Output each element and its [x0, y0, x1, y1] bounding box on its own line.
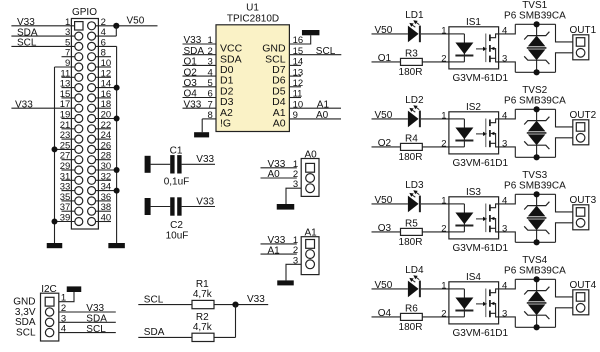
- net label A0 (U1 pin 9): [316, 110, 329, 121]
- svg-text:O2: O2: [378, 138, 392, 149]
- svg-text:SDA: SDA: [144, 327, 165, 338]
- ground bar (C1): [145, 156, 151, 173]
- top output rail (channel 4): [515, 278, 555, 280]
- resistor R1 4,7k: [192, 279, 214, 309]
- svg-text:G3VM-61D1: G3VM-61D1: [453, 243, 509, 254]
- net label O1 (U1 pin 3): [184, 57, 198, 68]
- top output rail (channel 1): [515, 23, 555, 25]
- svg-text:10: 10: [293, 99, 304, 110]
- wire bottom rail to OUT3 pin 2: [556, 223, 573, 243]
- wire A0 pin 3 to ground: [286, 188, 301, 204]
- top output rail (channel 3): [515, 193, 555, 195]
- svg-text:A0: A0: [316, 110, 329, 121]
- svg-text:R4: R4: [405, 133, 418, 144]
- net label SCL (U1 pin 15): [316, 46, 336, 57]
- svg-text:V50: V50: [375, 280, 393, 291]
- TVS diode TVS4 label: [504, 255, 566, 276]
- IS1 pin numbers: [441, 25, 507, 64]
- wire SCL to GPIO pin 5: [11, 45, 74, 47]
- junction dot GPIO pin 39: [52, 219, 58, 225]
- TVS diode TVS1: [524, 24, 549, 72]
- svg-text:2: 2: [441, 223, 446, 234]
- svg-text:C1: C1: [170, 145, 183, 156]
- wire I2C pin 3 SDA: [59, 321, 116, 323]
- net label V33 (GPIO pin 17): [15, 99, 33, 110]
- U1 value TPIC2810D: [227, 14, 279, 25]
- svg-text:1: 1: [441, 25, 446, 36]
- wire A1 pin 3 to ground: [286, 264, 301, 280]
- wire V33 to U1 pin 1: [183, 43, 217, 45]
- wire V33 to A1 pin 1: [261, 243, 297, 245]
- LED LD1: [405, 10, 424, 42]
- connector OUT2: [570, 110, 597, 145]
- svg-text:3: 3: [502, 53, 507, 64]
- junction dot TVS4 top: [534, 276, 540, 282]
- wire I2C pin 1 to ground bar: [59, 292, 74, 302]
- net label SCL (GPIO pin 5): [17, 38, 37, 49]
- net label SCL (R1): [144, 295, 164, 306]
- net label SDA (U1 pin 2): [184, 46, 205, 57]
- svg-text:1: 1: [441, 195, 446, 206]
- svg-text:V50: V50: [375, 25, 393, 36]
- bottom output rail (channel 4): [515, 326, 555, 328]
- junction dot GPIO pin 20: [114, 116, 120, 122]
- svg-text:P6 SMB39CA: P6 SMB39CA: [504, 265, 566, 276]
- svg-text:!G: !G: [220, 118, 231, 130]
- svg-text:2: 2: [441, 53, 446, 64]
- net label O2: [378, 138, 392, 149]
- svg-text:180R: 180R: [399, 152, 423, 163]
- svg-text:SDA: SDA: [184, 46, 205, 57]
- wire U1 pin 10 A1: [289, 107, 341, 109]
- net label SDA (I2C pin 3): [86, 314, 107, 325]
- svg-text:V33: V33: [196, 154, 214, 165]
- svg-text:1: 1: [441, 110, 446, 121]
- wire I2C pin 2 V33: [59, 311, 116, 313]
- svg-text:O2: O2: [184, 67, 198, 78]
- svg-text:V33: V33: [184, 35, 202, 46]
- junction dot TVS3 bottom: [534, 239, 540, 245]
- wire V33 to GPIO pin 17: [11, 107, 74, 109]
- wire SDA to U1 pin 2: [183, 54, 217, 56]
- svg-text:10uF: 10uF: [166, 231, 189, 242]
- svg-text:3: 3: [502, 223, 507, 234]
- svg-text:A1: A1: [317, 99, 330, 110]
- resistor R3 180R: [399, 48, 423, 78]
- svg-text:13: 13: [293, 67, 304, 78]
- net label A0 (A0 pin 2): [268, 169, 281, 180]
- IS2 pin numbers: [441, 110, 507, 149]
- net label V50: [127, 16, 145, 27]
- net label O3 (U1 pin 5): [184, 78, 198, 89]
- wire O3 to R5: [372, 231, 401, 233]
- LED LD4: [405, 265, 424, 297]
- I2C pin numbers: [61, 293, 66, 335]
- junction dot TVS1 top: [534, 21, 540, 27]
- net label V33 (GPIO pin 1): [17, 17, 35, 28]
- wire A0 net to A0 pin 2: [261, 177, 297, 179]
- net label SDA (R2): [144, 327, 165, 338]
- wire V50 to LED LD3: [372, 203, 408, 205]
- wire V33 to GPIO pin 1: [11, 25, 74, 27]
- svg-text:4: 4: [502, 280, 507, 291]
- wire SCL to R1: [138, 304, 192, 306]
- svg-text:O3: O3: [378, 223, 392, 234]
- connector OUT1: [570, 25, 597, 60]
- IS1 internal LED: [449, 34, 474, 62]
- wire LD3 to IS3 pin 1: [421, 203, 449, 205]
- wire top rail to OUT4 pin 1: [556, 279, 573, 297]
- IS4 light arrow: [476, 302, 487, 306]
- wire ground to C2: [151, 206, 171, 208]
- ground bar (I2C pin 1): [67, 286, 82, 292]
- svg-text:GPIO: GPIO: [72, 7, 97, 18]
- opto relay IS2 G3VM-61D1: [449, 102, 509, 169]
- resistor R2 4,7k: [192, 312, 214, 342]
- svg-text:G3VM-61D1: G3VM-61D1: [453, 73, 509, 84]
- TVS diode TVS4: [524, 279, 549, 327]
- wire C2 to V33: [182, 206, 215, 208]
- junction dot TVS2 bottom: [534, 154, 540, 160]
- svg-text:R5: R5: [405, 218, 418, 229]
- wire R5 to IS3 pin 2: [422, 231, 449, 233]
- wire R1 to V33 junction: [214, 304, 268, 306]
- junction dot TVS3 top: [534, 191, 540, 197]
- wire R3 to IS1 pin 2: [422, 61, 449, 63]
- ground bar (C2): [145, 198, 151, 215]
- opto relay IS4 G3VM-61D1: [449, 272, 509, 339]
- net label V50 (channel 3): [375, 195, 393, 206]
- wire V50 to LED LD2: [372, 118, 408, 120]
- svg-text:2: 2: [441, 138, 446, 149]
- net label A1 (A1 pin 2): [268, 245, 281, 256]
- connector OUT4: [570, 280, 597, 315]
- wire SDA to R2: [138, 336, 192, 338]
- svg-text:0,1uF: 0,1uF: [164, 176, 190, 187]
- wire V50 to LED LD1: [372, 33, 408, 35]
- junction dot TVS1 bottom: [534, 69, 540, 75]
- LED LD3: [405, 180, 424, 212]
- IS3 photo-MOSFET: [486, 204, 499, 233]
- svg-text:4: 4: [502, 25, 507, 36]
- TVS diode TVS2 label: [504, 85, 566, 106]
- wire O2 to R4: [372, 146, 401, 148]
- svg-text:V50: V50: [375, 195, 393, 206]
- wire O4 to U1 pin 6: [183, 97, 217, 99]
- wire O4 to R6: [372, 316, 401, 318]
- svg-text:O4: O4: [378, 308, 392, 319]
- svg-text:LD2: LD2: [405, 95, 424, 106]
- wire IS4 pin 4 to top rail: [499, 279, 516, 289]
- GPIO pin lead stubs: [62, 57, 112, 222]
- svg-text:V33: V33: [15, 99, 33, 110]
- svg-text:O1: O1: [184, 57, 198, 68]
- junction dot TVS2 top: [534, 106, 540, 112]
- IS2 internal LED: [449, 119, 474, 147]
- U1 pin names (inside): [220, 43, 286, 130]
- IS1 light arrow: [476, 47, 487, 51]
- IS4 internal LED: [449, 289, 474, 317]
- wire IS3 pin 3 to bottom rail: [499, 232, 516, 242]
- wire GPIO pin 2 to V50 net: [96, 25, 158, 27]
- TVS diode TVS2: [524, 109, 549, 157]
- wire C1 to V33: [182, 163, 215, 165]
- wire IS3 pin 4 to top rail: [499, 194, 516, 204]
- net label V50 (channel 4): [375, 280, 393, 291]
- svg-text:LD1: LD1: [405, 10, 424, 21]
- svg-text:SCL: SCL: [86, 324, 106, 335]
- svg-text:180R: 180R: [399, 237, 423, 248]
- svg-text:G3VM-61D1: G3VM-61D1: [453, 158, 509, 169]
- capacitor C1 0.1uF: [164, 145, 190, 187]
- svg-text:O4: O4: [184, 89, 198, 100]
- ground bar (GPIO left bus): [47, 243, 63, 248]
- ground bar (A0): [277, 204, 295, 210]
- wire V50 to LED LD4: [372, 288, 408, 290]
- net label O4: [378, 308, 392, 319]
- junction dot GPIO pin 25: [52, 146, 58, 152]
- resistor R5 180R: [399, 218, 423, 248]
- IS4 pin numbers: [441, 280, 507, 319]
- wire top rail to OUT1 pin 1: [556, 24, 573, 42]
- wire V33 to U1 pin 7: [183, 107, 217, 109]
- GPIO pin numbers: [60, 17, 111, 224]
- opto relay IS1 G3VM-61D1: [449, 17, 509, 84]
- svg-text:R3: R3: [405, 48, 418, 59]
- wire top rail to OUT2 pin 1: [556, 109, 573, 127]
- wire bottom rail to OUT2 pin 2: [556, 138, 573, 158]
- junction dot TVS4 bottom: [534, 324, 540, 330]
- junction dot V50: [113, 23, 119, 29]
- wire IS2 pin 3 to bottom rail: [499, 147, 516, 157]
- IS3 pin numbers: [441, 195, 507, 234]
- wire junction down to R2: [235, 305, 237, 338]
- net label O3: [378, 223, 392, 234]
- junction dot R1/R2 V33: [232, 302, 238, 308]
- svg-text:SCL: SCL: [316, 46, 336, 57]
- net label O4 (U1 pin 6): [184, 89, 198, 100]
- ground bar (U1 pin 16): [302, 30, 320, 35]
- svg-text:4,7k: 4,7k: [193, 322, 213, 333]
- net label O2 (U1 pin 4): [184, 67, 198, 78]
- net label O1: [378, 53, 392, 64]
- svg-text:4: 4: [502, 195, 507, 206]
- wire O1 to U1 pin 3: [183, 64, 217, 66]
- connector A0: [293, 150, 319, 197]
- wire O2 to U1 pin 4: [183, 75, 217, 77]
- junction dot GPIO pin 14: [114, 85, 120, 91]
- wire IS2 pin 4 to top rail: [499, 109, 516, 119]
- connector OUT3: [570, 195, 597, 230]
- svg-text:180R: 180R: [399, 322, 423, 333]
- wire bottom rail to OUT4 pin 2: [556, 308, 573, 328]
- wire LD1 to IS1 pin 1: [421, 33, 449, 35]
- IS1 photo-MOSFET: [486, 34, 499, 63]
- wire R2 to junction: [214, 336, 236, 338]
- svg-text:V33: V33: [184, 99, 202, 110]
- junction dot GPIO pin 30: [114, 167, 120, 173]
- svg-text:4: 4: [502, 110, 507, 121]
- net label A1 (U1 pin 10): [317, 99, 330, 110]
- svg-text:1: 1: [441, 280, 446, 291]
- svg-text:O3: O3: [184, 78, 198, 89]
- IS3 light arrow: [476, 217, 487, 221]
- U1 pin numbers: [208, 35, 304, 121]
- svg-text:4,7k: 4,7k: [193, 289, 213, 300]
- connector GPIO (2x20 pin header): [71, 7, 98, 229]
- net label V33 (U1 pin 1): [184, 35, 202, 46]
- svg-text:V33: V33: [196, 196, 214, 207]
- LED LD2: [405, 95, 424, 127]
- wire R4 to IS2 pin 2: [422, 146, 449, 148]
- net label V50 (channel 2): [375, 110, 393, 121]
- net label SCL (I2C pin 4): [86, 324, 106, 335]
- wire IS1 pin 3 to bottom rail: [499, 62, 516, 72]
- svg-text:3: 3: [502, 308, 507, 319]
- wire I2C pin 4 SCL: [59, 332, 116, 334]
- top output rail (channel 2): [515, 108, 555, 110]
- op-amp U1 designator: [246, 2, 259, 13]
- ground bar (A1): [277, 280, 294, 285]
- IS2 photo-MOSFET: [486, 119, 499, 148]
- ground bar (GPIO right bus): [108, 243, 125, 248]
- net label V33 (C2): [196, 196, 214, 207]
- svg-text:LD4: LD4: [405, 265, 424, 276]
- svg-text:C2: C2: [170, 220, 183, 231]
- wire SDA to GPIO pin 3: [11, 35, 74, 37]
- svg-text:LD3: LD3: [405, 180, 424, 191]
- svg-text:G3VM-61D1: G3VM-61D1: [453, 328, 509, 339]
- opto relay IS3 G3VM-61D1: [449, 187, 509, 254]
- wire V33 to A0 pin 1: [261, 167, 297, 169]
- wire LD4 to IS4 pin 1: [421, 288, 449, 290]
- IS2 light arrow: [476, 132, 487, 136]
- IS4 photo-MOSFET: [486, 289, 499, 318]
- svg-text:A0: A0: [268, 169, 281, 180]
- svg-text:SCL: SCL: [16, 327, 36, 338]
- wire U1 pin 8 to ground: [202, 119, 216, 132]
- IS3 internal LED: [449, 204, 474, 232]
- svg-text:SCL: SCL: [144, 295, 164, 306]
- svg-text:4: 4: [208, 67, 213, 78]
- wire R6 to IS4 pin 2: [422, 316, 449, 318]
- TVS diode TVS3 label: [504, 170, 566, 191]
- svg-text:V33: V33: [247, 294, 265, 305]
- net label V50 (channel 1): [375, 25, 393, 36]
- bottom output rail (channel 1): [515, 71, 555, 73]
- resistor R6 180R: [399, 303, 423, 333]
- wire ground to C1: [151, 163, 171, 165]
- connector I2C: [41, 284, 59, 341]
- capacitor C2 10uF: [166, 197, 189, 241]
- svg-text:180R: 180R: [399, 67, 423, 78]
- junction dot GPIO pin 34: [114, 188, 120, 194]
- wire O3 to U1 pin 5: [183, 86, 217, 88]
- svg-text:P6 SMB39CA: P6 SMB39CA: [504, 95, 566, 106]
- svg-text:P6 SMB39CA: P6 SMB39CA: [504, 180, 566, 191]
- wire GPIO pin 4 to V50: [96, 26, 117, 36]
- bottom output rail (channel 3): [515, 241, 555, 243]
- svg-text:V50: V50: [375, 110, 393, 121]
- svg-text:U1: U1: [246, 2, 259, 13]
- GPIO left ground bus (pins 9, 25, 39): [55, 67, 75, 243]
- svg-text:SCL: SCL: [17, 38, 37, 49]
- svg-text:R6: R6: [405, 303, 418, 314]
- svg-text:3: 3: [502, 138, 507, 149]
- wire LD2 to IS2 pin 1: [421, 118, 449, 120]
- svg-text:O1: O1: [378, 53, 392, 64]
- net label V33 (U1 pin 7): [184, 99, 202, 110]
- net label V33 (C1): [196, 154, 214, 165]
- U1 pins 14-11 stubs: [289, 65, 301, 97]
- wire IS1 pin 4 to top rail: [499, 24, 516, 34]
- net label V33 (I2C pin 2): [86, 303, 104, 314]
- wire U1 pin 15 SCL: [289, 54, 341, 56]
- wire O1 to R3: [372, 61, 401, 63]
- bottom output rail (channel 2): [515, 156, 555, 158]
- wire U1 pin 9 A0: [289, 118, 341, 120]
- net label SDA (GPIO pin 3): [17, 27, 38, 38]
- svg-text:P6 SMB39CA: P6 SMB39CA: [504, 10, 566, 21]
- GPIO right ground bus (pins 6, 14, 20, 30, 34): [96, 46, 117, 243]
- net label V33 (A0 pin 1): [268, 159, 286, 170]
- I2C left pin labels: [13, 297, 36, 339]
- wire bottom rail to OUT1 pin 2: [556, 53, 573, 73]
- svg-text:A0: A0: [273, 118, 286, 130]
- svg-text:2: 2: [441, 308, 446, 319]
- connector A1: [293, 228, 319, 275]
- TVS diode TVS3: [524, 194, 549, 242]
- svg-text:7: 7: [208, 99, 213, 110]
- wire top rail to OUT3 pin 1: [556, 194, 573, 212]
- net label V33 (A1 pin 1): [268, 235, 286, 246]
- wire U1 pin 16 to ground bar: [289, 35, 310, 44]
- wire IS4 pin 3 to bottom rail: [499, 317, 516, 327]
- IC U1 TPIC2810D body: [216, 25, 289, 132]
- TVS diode TVS1 label: [504, 0, 566, 21]
- svg-text:V50: V50: [127, 16, 145, 27]
- svg-text:TPIC2810D: TPIC2810D: [227, 14, 279, 25]
- svg-text:A1: A1: [268, 245, 281, 256]
- resistor R4 180R: [399, 133, 423, 163]
- wire A1 net to A1 pin 2: [261, 253, 297, 255]
- ground bar (U1 pin 8): [194, 132, 209, 137]
- net label V33 (pullups): [247, 294, 265, 305]
